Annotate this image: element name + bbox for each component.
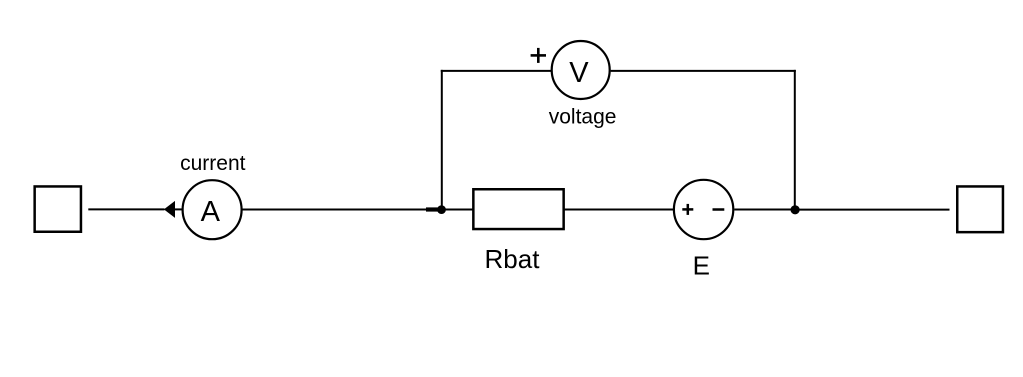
ammeter A1 <box>183 180 242 239</box>
source E1 plus mark <box>682 204 693 215</box>
wire ammeter to node A <box>242 209 428 211</box>
polarity + (voltmeter) <box>531 48 546 63</box>
wire top-right down to node B <box>794 70 796 210</box>
node B (junction dot right) <box>791 205 800 214</box>
wire voltmeter to top-right corner <box>611 70 796 72</box>
node A (junction dot left) <box>437 205 446 214</box>
wire arrow to ammeter <box>175 208 184 210</box>
wire node A to resistor <box>445 209 473 211</box>
wire node B to T2 <box>795 209 950 211</box>
terminal box T2 (right) <box>957 186 1003 232</box>
voltmeter V1 <box>552 41 610 99</box>
svg-text:voltage: voltage <box>549 106 617 129</box>
svg-text:current: current <box>180 152 246 175</box>
wire source E to node B <box>734 209 792 211</box>
ammeter arrow (points left) <box>164 201 175 218</box>
source E1 (circle) <box>674 180 733 239</box>
wire thick stub into node A <box>426 207 438 211</box>
wire from T1 to ammeter arrow <box>88 208 164 210</box>
wire resistor to source E <box>565 209 674 211</box>
svg-text:Rbat: Rbat <box>485 244 541 274</box>
source E1 minus mark <box>713 208 725 211</box>
svg-text:V: V <box>569 57 589 89</box>
svg-text:E: E <box>693 250 710 280</box>
terminal box T1 (left) <box>35 186 81 231</box>
svg-text:A: A <box>201 196 221 228</box>
wire top-left horizontal to voltmeter <box>441 70 552 72</box>
resistor Rbat <box>473 189 563 229</box>
wire node A up to voltmeter loop <box>441 70 443 210</box>
